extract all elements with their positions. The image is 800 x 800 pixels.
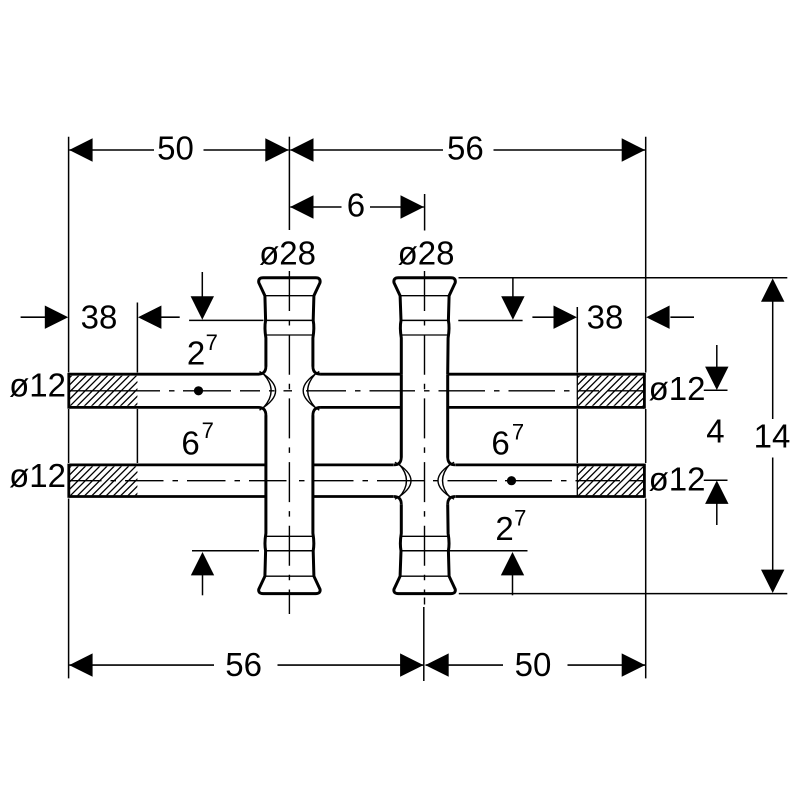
extension line right pipe center top bbox=[424, 194, 426, 231]
svg-text:2: 2 bbox=[187, 335, 205, 372]
extension line left pipe center top bbox=[288, 137, 290, 230]
right pipe lower junction saddle curves bbox=[395, 462, 454, 499]
right press socket bottom bbox=[394, 504, 455, 593]
press depth line top right bbox=[458, 320, 522, 322]
press depth arrow bottom left bbox=[202, 574, 204, 596]
press depth line bottom right bbox=[448, 550, 528, 552]
extension line left end bbox=[68, 137, 70, 679]
svg-text:7: 7 bbox=[206, 330, 218, 355]
svg-text:7: 7 bbox=[512, 420, 524, 445]
press depth line top left bbox=[189, 319, 263, 321]
left pipe upper junction fillets bbox=[258, 366, 320, 415]
right press socket top bbox=[394, 278, 455, 374]
dimension 56 bottom bbox=[69, 664, 423, 666]
press depth arrow top left bbox=[201, 272, 203, 299]
flare top reference line bbox=[459, 277, 788, 279]
hatch left insertion zone upper pipe bbox=[11, 366, 182, 436]
svg-text:4: 4 bbox=[706, 413, 724, 450]
right pipe lower junction fillets bbox=[394, 457, 455, 504]
hatch left insertion zone lower pipe bbox=[11, 456, 182, 526]
right pipe centerline bbox=[424, 271, 426, 605]
left press socket bottom bbox=[259, 415, 320, 593]
svg-text:38: 38 bbox=[81, 298, 118, 335]
svg-text:6: 6 bbox=[347, 187, 365, 224]
hatch boundary line right through pipes bbox=[576, 374, 578, 496]
svg-text:ø12: ø12 bbox=[9, 457, 66, 494]
left pipe upper junction saddle curves bbox=[260, 372, 320, 411]
svg-text:38: 38 bbox=[587, 298, 624, 335]
extension line right hatch boundary bbox=[576, 307, 578, 463]
dimension 50 top bbox=[69, 149, 288, 151]
dimension 6 bbox=[290, 206, 424, 208]
svg-text:7: 7 bbox=[202, 418, 214, 443]
upper pipe flow dot bbox=[194, 386, 203, 395]
lower pipe centerline bbox=[70, 480, 644, 482]
hatch right insertion zone upper pipe bbox=[519, 366, 690, 436]
dimension 38 left bbox=[21, 316, 180, 318]
press depth arrow bottom right bbox=[512, 574, 514, 596]
svg-text:6: 6 bbox=[181, 425, 199, 462]
left press socket top bbox=[259, 278, 320, 367]
svg-text:56: 56 bbox=[447, 130, 484, 167]
press depth arrow top right bbox=[512, 279, 514, 300]
extension line left hatch boundary bbox=[136, 303, 138, 464]
lower pipe outline bbox=[69, 465, 644, 497]
svg-text:ø12: ø12 bbox=[649, 370, 706, 407]
svg-text:ø28: ø28 bbox=[398, 235, 455, 272]
press depth line bottom left bbox=[192, 550, 259, 552]
svg-text:56: 56 bbox=[225, 646, 262, 683]
extension line bottom right pipe center bbox=[423, 607, 425, 681]
svg-text:ø28: ø28 bbox=[259, 235, 316, 272]
extension line right end bbox=[645, 137, 647, 679]
dimension 14 line bbox=[772, 299, 774, 572]
flare bottom reference line bbox=[459, 593, 788, 595]
hatch right insertion zone lower pipe bbox=[519, 456, 690, 526]
svg-text:ø12: ø12 bbox=[649, 460, 706, 497]
svg-text:50: 50 bbox=[515, 646, 552, 683]
svg-text:7: 7 bbox=[514, 506, 526, 531]
dimension 38 right bbox=[532, 316, 694, 318]
right pipe wall through upper pipe bbox=[401, 374, 447, 457]
pipe end caps bbox=[69, 373, 645, 498]
dimension 50 bottom bbox=[426, 664, 646, 666]
left pipe centerline bbox=[288, 271, 290, 614]
dimension 56 top bbox=[290, 149, 645, 151]
upper pipe centerline bbox=[70, 390, 644, 392]
svg-text:50: 50 bbox=[157, 130, 194, 167]
svg-text:2: 2 bbox=[495, 510, 513, 547]
upper pipe outline bbox=[69, 374, 644, 407]
dimension 4 ticks bbox=[704, 390, 728, 480]
svg-text:6: 6 bbox=[491, 425, 509, 462]
svg-text:ø12: ø12 bbox=[9, 366, 66, 403]
lower pipe flow dot bbox=[507, 476, 516, 485]
dimension 4 arrows bbox=[716, 345, 718, 525]
svg-text:14: 14 bbox=[754, 418, 791, 455]
